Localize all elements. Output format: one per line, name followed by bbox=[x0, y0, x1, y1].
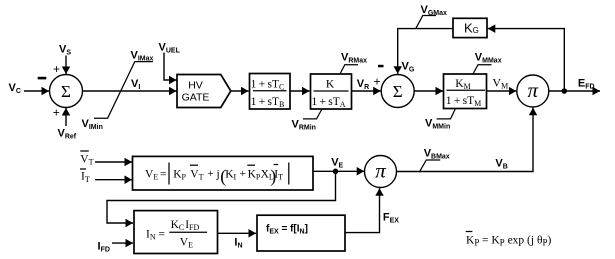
wire VE feedback down to IN block bbox=[107, 173, 336, 223]
junction dot VE bbox=[333, 169, 339, 175]
HV gate block bbox=[177, 75, 231, 108]
equation KP bar bbox=[466, 232, 552, 248]
junction dot EFD bbox=[562, 88, 568, 94]
svg-text:K: K bbox=[326, 79, 335, 91]
limiter slash VI bbox=[94, 62, 153, 119]
wire VE block to multiplier P2 bbox=[313, 170, 364, 172]
wire summer to HV gate bbox=[83, 90, 177, 92]
wire VS down into summer bbox=[65, 56, 67, 75]
wire IT into VE block bbox=[95, 179, 132, 181]
svg-text:Σ: Σ bbox=[393, 82, 403, 101]
svg-text:+: + bbox=[240, 168, 247, 180]
wire P1 to EFD output bbox=[549, 90, 600, 92]
svg-text:GATE: GATE bbox=[182, 91, 210, 103]
limiter VMMax on KM block bbox=[473, 65, 492, 74]
wire VRef up into summer bbox=[65, 108, 67, 126]
svg-text:IN =: IN = bbox=[146, 229, 165, 242]
wire KM to multiplier bbox=[487, 90, 517, 92]
wire fEX up into P2 bbox=[345, 188, 380, 232]
limiter VRMin on K block bbox=[303, 109, 322, 119]
multiplier P1 bbox=[517, 75, 549, 107]
limiter slash VGMax bbox=[416, 16, 436, 29]
block KM/(1+sTM) bbox=[444, 74, 487, 109]
multiplier P2 bbox=[365, 156, 397, 188]
block (1+sTC)/(1+sTB) bbox=[250, 74, 291, 110]
block VE equation bbox=[133, 156, 314, 190]
svg-text:+: + bbox=[53, 62, 60, 76]
block IN equation bbox=[134, 211, 218, 254]
wire S2 to KM block bbox=[414, 90, 443, 92]
svg-text:=: = bbox=[160, 169, 167, 181]
block K/(1+sTA) bbox=[311, 74, 352, 109]
svg-text:HV: HV bbox=[188, 80, 203, 92]
svg-text:Σ: Σ bbox=[61, 82, 71, 101]
summing junction S1 bbox=[50, 75, 83, 108]
svg-text:+: + bbox=[207, 168, 214, 180]
wire VC to summer bbox=[24, 90, 49, 92]
svg-text:+: + bbox=[373, 74, 380, 88]
wire IFD into IN block bbox=[112, 242, 133, 244]
svg-text:π: π bbox=[528, 78, 539, 102]
wire P2 out to VB and up into P1 bbox=[397, 108, 534, 172]
wire VT into VE block bbox=[95, 161, 132, 163]
minus sign above summer 2 bbox=[378, 65, 384, 68]
summing junction S2 bbox=[381, 75, 414, 108]
wire TC/TB to K block bbox=[290, 90, 310, 92]
wire HV gate to TC/TB block bbox=[231, 90, 249, 92]
block KG bbox=[453, 18, 487, 37]
wire KG to summer 2 bbox=[398, 29, 453, 74]
svg-text:+: + bbox=[53, 106, 60, 120]
svg-text:= KP exp (j θP): = KP exp (j θP) bbox=[482, 235, 551, 248]
limiter VRMax on K block bbox=[340, 65, 358, 74]
block fEX bbox=[257, 215, 345, 251]
svg-text:π: π bbox=[375, 159, 386, 183]
wire K block to summer 2 bbox=[352, 90, 381, 92]
wire feedback EFD up bbox=[488, 29, 565, 91]
minus sign at summer 1 input bbox=[38, 77, 47, 80]
limiter slash VBMax bbox=[419, 160, 440, 172]
wire IN block to fEX block bbox=[218, 232, 257, 234]
limiter VMMin on KM block bbox=[437, 109, 456, 119]
svg-text:j: j bbox=[216, 169, 220, 181]
wire VUEL into HV gate bbox=[164, 53, 177, 81]
